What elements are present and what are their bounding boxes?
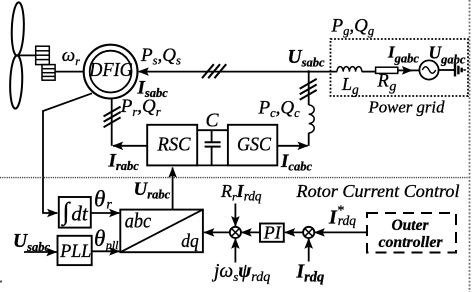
svg-text:I*rdq: I*rdq	[328, 204, 356, 229]
svg-text:abc: abc	[125, 208, 152, 232]
integrator block	[59, 197, 91, 228]
summing junction 2	[303, 227, 314, 238]
svg-text:Pr,Qr: Pr,Qr	[120, 96, 161, 119]
svg-text:RSC: RSC	[157, 135, 192, 156]
node junction	[307, 70, 310, 73]
ac source U_gabc	[419, 60, 438, 79]
svg-text:θr: θr	[94, 186, 112, 212]
svg-text:Rg: Rg	[377, 72, 397, 95]
svg-text:Urabc: Urabc	[134, 179, 171, 202]
summing junction 1	[230, 227, 241, 238]
turbine shaft wire	[17, 54, 36, 56]
power grid dotted box	[331, 39, 469, 96]
inductor on GSC branch	[309, 105, 315, 133]
controller PI	[260, 223, 284, 243]
svg-text:Igabc: Igabc	[387, 43, 419, 66]
svg-text:∫dt: ∫dt	[61, 199, 89, 227]
svg-text:θpll: θpll	[94, 226, 119, 252]
wire psi up to sum1	[234, 239, 236, 263]
three-phase slash on junction drop	[300, 79, 317, 100]
svg-text:Irabc: Irabc	[108, 150, 140, 173]
wire junction to power grid	[309, 71, 337, 73]
wire junction down to coil	[308, 72, 310, 105]
wire PLL to abc block	[92, 250, 120, 252]
svg-text:Pc,Qc: Pc,Qc	[258, 98, 301, 121]
wire outer controller to sum2	[315, 231, 368, 233]
three-phase slash on rotor wire	[104, 107, 121, 128]
transform block abc-dq	[120, 208, 203, 252]
svg-text:dq: dq	[181, 232, 199, 252]
wire R_r I_rdq down to sum1	[234, 204, 236, 227]
svg-text:Ps,Qs: Ps,Qs	[140, 45, 181, 67]
svg-text:controller: controller	[379, 234, 444, 251]
wire GSC to node with arrow	[277, 145, 307, 147]
dc link top rail	[197, 129, 228, 131]
converter RSC	[147, 125, 197, 166]
wire PI to sum1	[242, 231, 260, 233]
wire abc block up to RSC	[172, 168, 174, 210]
wire sum1 to abc block	[204, 231, 230, 233]
wire integrator to abc block	[91, 212, 120, 214]
svg-text:GSC: GSC	[237, 135, 272, 156]
wind turbine blade top	[11, 2, 25, 56]
wire inductor to resistor	[362, 71, 376, 73]
wire stator to junction with arrow into DFIG	[139, 71, 309, 73]
svg-text:Usabc: Usabc	[288, 47, 325, 70]
wire RSC to rotor node with arrow	[113, 145, 147, 147]
svg-text:C: C	[206, 110, 220, 131]
capacitor C	[205, 130, 221, 165]
svg-text:PI: PI	[263, 223, 282, 243]
wire coil to GSC node	[308, 133, 310, 146]
left edge dot artifact	[0, 281, 2, 283]
svg-text:jωsψrdq: jωsψrdq	[211, 261, 270, 285]
svg-text:PLL: PLL	[59, 241, 91, 262]
outer controller dashed box	[367, 213, 456, 253]
wind turbine blade bottom	[9, 55, 23, 109]
svg-text:Lg: Lg	[341, 74, 359, 97]
wire source to ground	[439, 69, 455, 71]
wire DFIG rotor down	[111, 98, 113, 146]
wire I_rdq up to sum2	[308, 239, 310, 262]
wire DFIG diagonal to measurement	[43, 93, 92, 213]
wire U_sabc to PLL	[24, 251, 57, 253]
gearbox	[36, 46, 55, 80]
ground	[455, 64, 465, 77]
svg-text:Rotor Current Control: Rotor Current Control	[295, 181, 459, 201]
svg-text:Pg,Qg: Pg,Qg	[331, 16, 375, 39]
svg-text:Icabc: Icabc	[280, 151, 312, 174]
resistor R_g	[376, 67, 398, 73]
dotted separator line	[0, 177, 470, 179]
right edge dotted line	[469, 0, 471, 292]
inductor L_g	[337, 67, 362, 72]
svg-text:Irdq: Irdq	[296, 262, 325, 286]
svg-text:Outer: Outer	[392, 217, 430, 234]
wire gearbox to DFIG	[55, 71, 84, 73]
svg-text:DFIG: DFIG	[88, 59, 133, 81]
wire sum2 to PI	[285, 231, 304, 233]
PLL block	[58, 236, 92, 265]
three-phase slash on stator wire	[202, 64, 226, 78]
svg-text:RrIrdq: RrIrdq	[220, 181, 262, 204]
svg-text:ωr: ωr	[62, 45, 80, 68]
svg-text:Usabc: Usabc	[13, 231, 50, 254]
dc link bottom rail	[197, 164, 228, 166]
wire resistor to source with I_gabc arrow	[398, 69, 412, 71]
machine DFIG	[84, 45, 138, 99]
converter GSC	[228, 125, 277, 166]
svg-text:Power grid: Power grid	[367, 98, 445, 117]
